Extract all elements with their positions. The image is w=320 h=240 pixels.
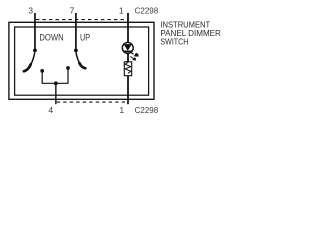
- svg-text:3: 3: [28, 5, 33, 15]
- DOWN switch pivot contact: [33, 49, 37, 53]
- resistor zigzag: [125, 62, 131, 73]
- junction node: [54, 81, 58, 85]
- wire stub from UP contact: [67, 68, 69, 83]
- wire stub from DOWN contact: [41, 71, 43, 83]
- switch inner box: [15, 27, 149, 95]
- svg-text:1: 1: [119, 5, 124, 15]
- UP switch blade: [76, 52, 80, 64]
- svg-text:4: 4: [48, 105, 53, 115]
- connector C2298 top dashed line: [36, 19, 128, 21]
- UP switch stationary contact: [66, 66, 70, 70]
- resistor box: [124, 62, 131, 76]
- svg-text:DOWN: DOWN: [39, 31, 63, 42]
- svg-text:7: 7: [70, 5, 75, 15]
- LED light arrow 1 head: [134, 53, 139, 57]
- wire pin 4: [55, 83, 57, 104]
- LED cathode bar: [124, 50, 132, 52]
- svg-text:C2298: C2298: [135, 105, 159, 115]
- LED indicator circle: [122, 42, 133, 53]
- wire pin 7: [75, 13, 77, 50]
- LED diode triangle: [124, 44, 132, 51]
- svg-text:SWITCH: SWITCH: [160, 36, 188, 46]
- switch outer box: [9, 22, 154, 99]
- UP switch pivot contact: [74, 49, 78, 53]
- LED light arrow 2 head: [132, 57, 136, 60]
- LED light arrow 2 shaft: [130, 56, 133, 58]
- wire pin 1 bottom: [127, 76, 129, 105]
- svg-text:1: 1: [119, 105, 124, 115]
- LED light arrow 1 shaft: [130, 52, 134, 55]
- wire pin 3: [34, 13, 36, 50]
- DOWN switch blade: [30, 52, 35, 65]
- svg-text:UP: UP: [80, 31, 90, 42]
- common bracket wire: [42, 82, 69, 84]
- connector C2298 bottom dashed line: [57, 101, 127, 103]
- wire pin 1 top: [127, 13, 129, 43]
- wire LED to resistor: [127, 53, 129, 62]
- DOWN switch stationary contact: [40, 69, 44, 73]
- svg-text:C2298: C2298: [135, 5, 159, 15]
